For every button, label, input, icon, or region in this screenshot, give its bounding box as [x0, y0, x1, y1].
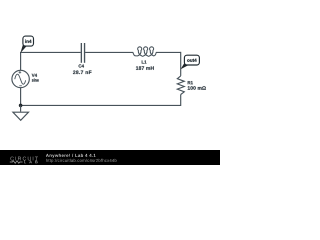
flag in4 box: [23, 36, 34, 46]
flag in4 tail: [20, 44, 26, 53]
wire bottom: [21, 104, 181, 106]
footer url: [46, 159, 117, 163]
footer title: [46, 154, 96, 158]
resistor R1: [177, 76, 184, 95]
label C4 value: [73, 71, 91, 75]
wire cap to coil: [85, 51, 133, 53]
ground: [13, 105, 29, 120]
label R1 value: [188, 86, 206, 90]
flag out4 tail: [181, 62, 189, 69]
V4 sine symbol: [15, 74, 26, 84]
wire top left: [21, 51, 81, 53]
capacitor C4: [81, 43, 84, 63]
V4 plus sign: [19, 71, 22, 74]
label R1 name: [188, 81, 193, 84]
wire resistor to bottom corner: [180, 95, 182, 106]
wire source bottom: [20, 88, 22, 106]
flag out4 text: [187, 59, 197, 62]
flag out4 box: [184, 55, 199, 65]
wire source top: [20, 52, 22, 71]
flag in4 text: [25, 40, 31, 43]
label C4 name: [79, 64, 84, 67]
footer bar: [0, 150, 220, 165]
inductor L1: [133, 47, 156, 56]
wire right vertical to resistor: [180, 52, 182, 76]
label L1 value: [136, 66, 154, 70]
voltage source V4 circle: [12, 70, 29, 87]
logo CIRCUIT: [10, 157, 38, 161]
junction dot: [19, 104, 23, 108]
V4 minus sign: [19, 85, 22, 87]
label V4 name: [32, 74, 37, 77]
logo LAB: [24, 161, 38, 164]
label V4 value: [32, 78, 39, 81]
logo zigzag: [10, 161, 23, 164]
wire coil to corner: [156, 51, 181, 53]
label L1 name: [142, 60, 147, 63]
